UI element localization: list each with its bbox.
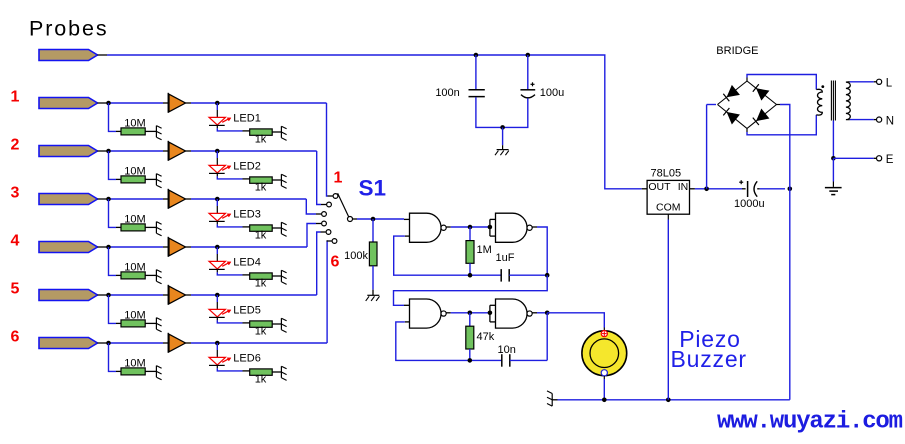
svg-text:L: L	[886, 78, 893, 90]
svg-text:1M: 1M	[477, 244, 492, 256]
svg-text:Probes: Probes	[29, 17, 109, 41]
svg-text:1uF: 1uF	[496, 252, 515, 264]
svg-text:LED1: LED1	[233, 113, 261, 125]
svg-text:BRIDGE: BRIDGE	[716, 45, 758, 57]
svg-text:1000u: 1000u	[734, 198, 765, 210]
svg-text:1k: 1k	[255, 326, 267, 338]
svg-text:4: 4	[11, 233, 20, 250]
svg-text:LED2: LED2	[233, 161, 261, 173]
svg-text:100u: 100u	[540, 87, 564, 99]
svg-text:LED3: LED3	[233, 209, 261, 221]
svg-text:10M: 10M	[124, 166, 145, 178]
svg-text:LED6: LED6	[233, 353, 261, 365]
svg-text:10M: 10M	[124, 214, 145, 226]
svg-text:10M: 10M	[124, 310, 145, 322]
svg-text:1k: 1k	[255, 278, 267, 290]
svg-text:6: 6	[11, 329, 20, 346]
svg-text:COM: COM	[656, 202, 681, 214]
svg-text:3: 3	[11, 185, 20, 202]
svg-text:47k: 47k	[477, 331, 495, 343]
svg-text:10M: 10M	[124, 118, 145, 130]
svg-text:S1: S1	[359, 176, 387, 201]
svg-text:2: 2	[11, 137, 20, 154]
svg-text:Buzzer: Buzzer	[671, 346, 747, 372]
svg-text:N: N	[886, 115, 894, 127]
svg-text:78L05: 78L05	[651, 168, 682, 180]
svg-text:OUT: OUT	[648, 181, 671, 193]
svg-text:6: 6	[331, 254, 340, 271]
svg-text:10n: 10n	[498, 344, 516, 356]
svg-text:www.wuyazi.com: www.wuyazi.com	[717, 409, 903, 436]
svg-text:E: E	[886, 154, 894, 166]
svg-text:100n: 100n	[435, 87, 459, 99]
svg-text:10M: 10M	[124, 262, 145, 274]
svg-text:1: 1	[11, 89, 20, 106]
svg-text:1: 1	[334, 170, 343, 187]
svg-text:1k: 1k	[255, 230, 267, 242]
svg-text:100k: 100k	[344, 250, 368, 262]
svg-text:5: 5	[11, 281, 20, 298]
svg-text:LED5: LED5	[233, 305, 261, 317]
svg-text:1k: 1k	[255, 374, 267, 386]
svg-text:1k: 1k	[255, 182, 267, 194]
svg-text:1k: 1k	[255, 134, 267, 146]
svg-text:10M: 10M	[124, 358, 145, 370]
svg-text:IN: IN	[678, 181, 689, 193]
svg-text:LED4: LED4	[233, 257, 261, 269]
